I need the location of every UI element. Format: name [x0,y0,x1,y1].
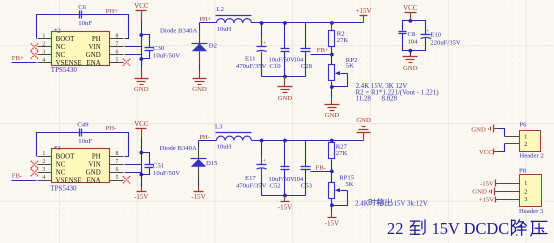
wire pin7 bottom [125,164,142,166]
wire C8/E10 loop [403,21,426,57]
power VCC (C8/E10 group) [403,4,418,21]
power -15V under D15 [194,191,204,193]
svg-text:+15V: +15V [479,197,494,204]
svg-text:VCC: VCC [403,4,418,12]
junction bottom rail neg [283,194,287,198]
capacitor E17 (polarized) [236,141,267,196]
capacitor C10 [269,23,296,77]
svg-text:27K: 27K [336,150,348,157]
svg-text:5K: 5K [346,62,354,69]
diode D2 [160,28,217,52]
svg-text:P6: P6 [519,122,527,129]
wire pin6 to rail [125,54,142,56]
svg-text:C10: C10 [270,63,282,70]
junction C8/E10 bottom [408,49,412,53]
svg-text:FB-: FB- [316,164,326,171]
svg-text:D2: D2 [209,42,217,49]
svg-text:Header 2: Header 2 [519,153,543,160]
svg-text:C52: C52 [270,183,281,190]
svg-text:2.4K: 2.4K [355,200,369,207]
svg-text:C30: C30 [153,45,165,52]
svg-text:VCC: VCC [134,120,149,128]
junction E11 top [260,21,264,25]
ground cap bank [284,77,286,87]
junction C30 bottom [139,57,143,61]
port VCC to P6.2 [479,144,505,156]
wire cap-bank bottom rail (neg) [262,195,306,197]
ground under C8/E10 [403,56,418,58]
svg-text:NC: NC [56,169,66,176]
inductor L3 [215,124,252,151]
port GND to P6.1 [471,125,504,137]
svg-text:BOOT: BOOT [56,36,76,43]
wire BOOT loop bottom [37,133,129,157]
svg-text:Header 3: Header 3 [519,208,544,215]
svg-text:GND: GND [134,86,149,93]
svg-text:C51: C51 [153,163,164,170]
junction C10 top [283,21,287,25]
svg-text:3: 3 [524,196,527,203]
svg-text:5: 5 [116,175,119,181]
net label FB- (divider) [311,164,332,171]
svg-text:220uF/35V: 220uF/35V [430,39,461,46]
svg-text:PH+: PH+ [106,8,119,15]
svg-text:VIN: VIN [88,161,100,168]
svg-text:7: 7 [116,42,119,48]
junction C51 bottom [139,173,143,177]
svg-text:PH-: PH- [106,125,117,132]
junction FB- [330,170,334,174]
inductor L2 [216,6,252,33]
svg-text:-15V: -15V [191,193,205,201]
power VCC (input, bottom) [134,120,149,137]
connector P6 [505,122,544,160]
no-connect X pin2 [30,43,38,51]
svg-text:GND: GND [278,95,293,102]
svg-text:L3: L3 [215,124,223,131]
svg-text:3: 3 [42,167,45,173]
no-connect X pin3 [30,51,38,59]
svg-text:Diode B340A: Diode B340A [160,145,198,152]
port -15V to P8.1 [480,180,497,188]
ground under D2 [199,71,201,79]
svg-text:8: 8 [116,34,119,40]
capacitor E10 (polarized) [421,28,461,46]
potentiometer RP15 [329,172,355,212]
wire PH+ rail [200,22,217,24]
power -15V under RP15 [328,217,337,219]
svg-text:GND: GND [472,189,487,196]
wire output rail -15V [252,140,364,142]
svg-text:E10: E10 [430,32,441,39]
capacitor C52 [269,141,296,196]
svg-text:ENA: ENA [87,177,101,184]
power +15V [360,15,368,17]
capacitor C49 [77,121,92,145]
svg-text:GND: GND [325,112,340,119]
wire pin6 bottom [125,172,142,174]
resistor R2 [329,23,349,55]
diode D15 [160,145,219,167]
capacitor C8 [399,31,419,46]
svg-text:470uF/35V: 470uF/35V [236,63,267,70]
junction VCC/C30 top [139,33,143,37]
svg-text:E17: E17 [245,175,256,182]
wire VCC rail down bottom [141,138,143,188]
svg-text:GND: GND [471,126,486,133]
svg-text:+: + [426,28,430,35]
note text R2 formula [356,83,439,102]
svg-text:ENA: ENA [87,60,101,67]
junction C52 top [283,139,287,143]
svg-text:GND: GND [403,65,418,72]
title text [387,219,547,238]
svg-text:*2: *2 [54,27,61,34]
svg-text:NC: NC [56,52,66,59]
wire output rail +15V [252,22,364,24]
svg-text:P8: P8 [519,168,527,175]
svg-text:-15V: -15V [278,203,292,211]
svg-text:104: 104 [408,39,419,46]
junction E17 top [260,139,264,143]
wire PH- rail [199,140,217,142]
net label FB+ / wire to pin 4 [12,55,37,63]
svg-text:FB-: FB- [12,173,22,180]
svg-text:10uF/50V: 10uF/50V [153,170,180,177]
svg-text:PH-: PH- [199,134,210,141]
ground under RP2 [331,98,333,105]
resistor R27 [329,141,348,172]
svg-text:-15V: -15V [134,193,148,201]
svg-text:TPS5430: TPS5430 [50,184,77,192]
svg-text:FB+: FB+ [12,55,24,62]
svg-text:10uH: 10uH [217,26,232,33]
svg-text:10nF: 10nF [78,138,92,145]
svg-text:470uF/35V: 470uF/35V [236,182,267,189]
svg-text:C49: C49 [77,121,89,128]
svg-text:10uF/50V: 10uF/50V [153,53,180,60]
junction R2 top [330,21,334,25]
wire cap-bank bottom rail [262,76,306,78]
port GND to P8.2 [472,188,496,196]
capacitor E11 (polarized) [236,23,267,77]
svg-text:4: 4 [42,175,45,181]
label C30 [153,45,180,60]
connector P8 [497,168,544,215]
potentiometer RP2 [329,55,358,98]
svg-text:2: 2 [524,188,527,195]
junction VCC top [408,19,412,23]
capacitor C51 [142,153,181,178]
svg-text:*3: *3 [54,145,61,152]
no-connect X pin3 bottom [30,169,38,177]
svg-text:D15: D15 [206,160,218,167]
power VCC (input, top) [134,2,149,20]
junction RP15 bottom [330,203,334,207]
svg-text:+: + [262,158,266,165]
svg-text:VIN: VIN [88,44,100,51]
svg-text:+15V: +15V [356,7,372,15]
svg-text:FB+: FB+ [317,47,329,54]
svg-text:GND: GND [192,86,207,93]
svg-text:2: 2 [42,159,45,165]
svg-text:NC: NC [56,44,66,51]
diode D15 vertical wire [198,141,200,147]
svg-text:GND: GND [86,52,101,59]
capacitor C28 [294,23,313,77]
svg-text:8: 8 [116,151,119,157]
svg-text:1: 1 [42,34,45,40]
wire BOOT loop top [37,15,129,39]
junction FB+ [330,53,334,57]
svg-text:10uH: 10uH [217,144,232,151]
capacitor C6 [78,4,92,27]
svg-text:22: 22 [387,219,403,238]
IC U3 TPS5430 [38,145,124,192]
no-connect X pin5 bottom [123,176,131,184]
svg-text:7: 7 [116,159,119,165]
junction C51 top [139,151,143,155]
svg-text:11.28: 11.28 [356,96,372,103]
svg-text:GND: GND [356,117,371,124]
IC U2 TPS5430 [38,27,124,74]
wire VCC rail down [141,21,143,70]
wire pin7 to VCC [125,46,142,48]
svg-text:8.828: 8.828 [382,96,398,103]
svg-text:1: 1 [524,133,527,140]
svg-text:C28: C28 [301,63,313,70]
port +15V to P8.3 [479,197,497,204]
svg-text:-15V: -15V [480,180,494,187]
svg-text:-15V: -15V [325,219,339,227]
svg-text:2: 2 [42,42,45,48]
capacitor C53 [294,141,313,196]
note text output [355,200,369,207]
power -15V under C51 [137,191,147,193]
no-connect X pin2 bottom [30,161,38,169]
junction bottom rail [283,75,287,79]
svg-text:C6: C6 [78,4,86,11]
svg-text:5: 5 [116,58,119,64]
svg-text:L2: L2 [217,6,224,13]
svg-text:GND: GND [86,169,101,176]
svg-text:NC: NC [56,161,66,168]
svg-text:1: 1 [42,151,45,157]
svg-text:15V DCDC: 15V DCDC [432,219,510,238]
svg-text:+: + [262,40,266,47]
svg-text:Diode B340A: Diode B340A [160,28,198,35]
svg-text:1: 1 [524,180,527,187]
svg-text:VCC: VCC [134,2,149,10]
svg-text:6: 6 [116,50,119,56]
svg-text:5K: 5K [345,181,353,188]
svg-text:6: 6 [116,167,119,173]
svg-text:10nF: 10nF [78,20,92,27]
junction R27 top [330,139,334,143]
svg-text:VCC: VCC [479,149,493,156]
svg-text:27K: 27K [337,37,349,44]
svg-text:15V 3k:12V: 15V 3k:12V [394,200,428,207]
ground (inverted) right of rail [363,133,365,141]
diode D2 vertical wire [199,23,201,31]
net label FB- / wire to pin4 [12,173,37,181]
svg-text:C8: C8 [408,31,416,38]
svg-text:3: 3 [42,50,45,56]
svg-text:PH: PH [92,36,101,43]
net label FB+ (divider) [311,47,332,54]
power -15V cap bank [281,201,290,203]
svg-text:PH: PH [92,153,101,160]
svg-text:4: 4 [42,58,45,64]
svg-text:2: 2 [524,141,527,148]
svg-text:E11: E11 [245,55,256,62]
note text output 15V (CJK) [369,199,428,208]
svg-text:C53: C53 [301,183,313,190]
svg-text:BOOT: BOOT [56,153,76,160]
junction RP2 bottom [330,85,334,89]
svg-text:TPS5430: TPS5430 [51,66,78,74]
capacitor C30 [142,35,154,59]
ground under C30 [141,70,143,79]
no-connect X pin5 [123,58,131,66]
